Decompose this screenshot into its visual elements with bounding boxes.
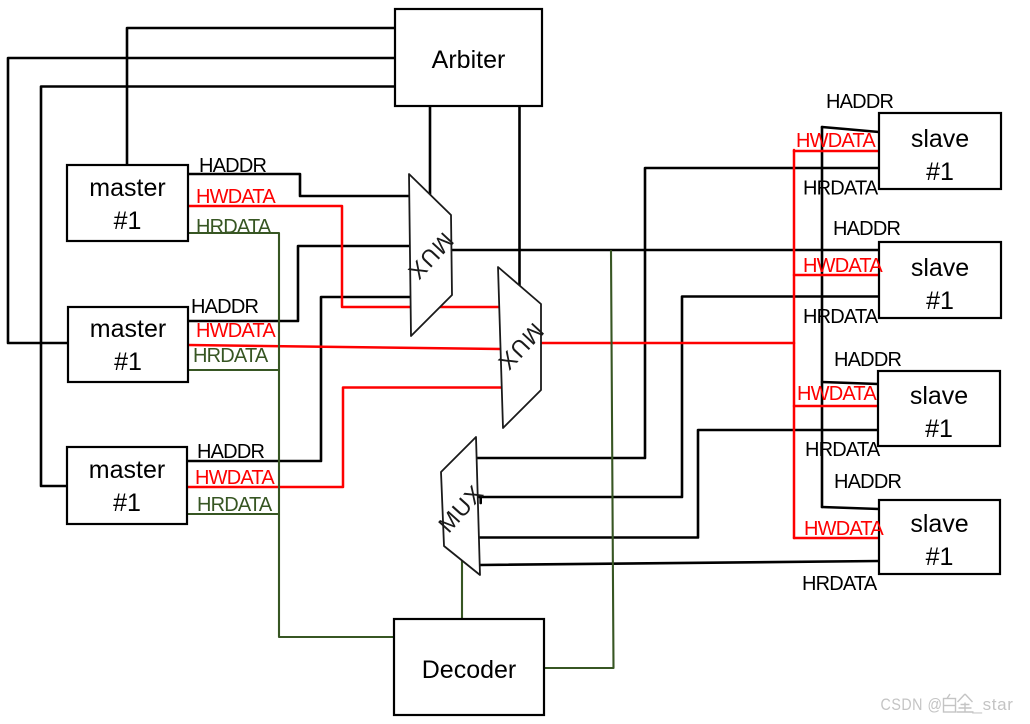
- svg-text:#1: #1: [925, 415, 953, 443]
- svg-text:HADDR: HADDR: [834, 471, 901, 493]
- wire: slave2 HRDATA to MUX3: [478, 297, 879, 498]
- svg-text:master: master: [89, 456, 165, 484]
- svg-text:HWDATA: HWDATA: [804, 518, 884, 540]
- svg-text:HWDATA: HWDATA: [196, 320, 276, 342]
- svg-text:slave: slave: [911, 125, 969, 153]
- svg-text:HWDATA: HWDATA: [196, 186, 276, 208]
- svg-text:slave: slave: [910, 382, 968, 410]
- wire: master3 HADDR to MUX1: [187, 297, 411, 461]
- block master 3: [67, 447, 187, 524]
- wire: HWDATA bus vertical: [793, 150, 796, 538]
- wire: slave4 HRDATA to MUX3: [480, 561, 880, 565]
- svg-text:HWDATA: HWDATA: [195, 467, 275, 489]
- wire: HWDATA bus from MUX2: [541, 342, 794, 345]
- wire: tick at MUX3 input2: [479, 497, 482, 503]
- wire: HWDATA branch to slave3: [794, 405, 878, 408]
- wire: master2 HRDATA: [188, 369, 279, 371]
- svg-text:#1: #1: [114, 207, 142, 235]
- svg-text:CSDN @: CSDN @: [881, 696, 943, 714]
- block slave 4: [879, 500, 1000, 574]
- svg-text:HWDATA: HWDATA: [796, 130, 876, 152]
- svg-text:#1: #1: [113, 489, 141, 517]
- svg-text:HADDR: HADDR: [191, 296, 258, 318]
- wire: master1 HADDR to MUX1: [188, 174, 410, 196]
- svg-text:HWDATA: HWDATA: [797, 383, 877, 405]
- wire: HWDATA branch to slave4: [794, 537, 879, 540]
- svg-text:HRDATA: HRDATA: [803, 306, 879, 328]
- wire: arbiter grant to master 3: [41, 87, 395, 487]
- block master 1: [67, 165, 188, 241]
- watermark glyph bai: [944, 694, 956, 712]
- svg-text:_star: _star: [971, 696, 1013, 714]
- wires group placeholder: [8, 28, 879, 668]
- svg-text:HRDATA: HRDATA: [193, 345, 269, 367]
- wire: master2 HADDR to MUX1: [188, 246, 410, 321]
- wire: HWDATA branch to slave2: [794, 274, 879, 277]
- wire: master2 HWDATA to MUX2: [188, 345, 501, 349]
- wire: HADDR branch to slave3: [822, 382, 878, 384]
- block slave 2: [879, 242, 1001, 318]
- svg-text:HWDATA: HWDATA: [803, 255, 883, 277]
- svg-text:HADDR: HADDR: [199, 155, 266, 177]
- svg-text:HRDATA: HRDATA: [196, 216, 272, 238]
- wire: decoder tap from HADDR bus: [544, 251, 614, 668]
- svg-text:slave: slave: [910, 510, 968, 538]
- svg-text:HADDR: HADDR: [834, 349, 901, 371]
- wire: masters HRDATA green vertical to Decoder: [188, 233, 394, 637]
- wire: slave1 HRDATA to MUX3: [477, 168, 879, 458]
- mux MUX3 read-data multiplexor: [433, 437, 489, 575]
- block master 2: [68, 307, 188, 382]
- wire: arbiter control to address MUX: [429, 106, 432, 194]
- svg-text:#1: #1: [114, 348, 142, 376]
- block Arbiter: [395, 9, 542, 106]
- mux MUX1 address multiplexor: [403, 174, 459, 336]
- wire: HADDR branch to slave1: [822, 127, 879, 132]
- wire: master1 HWDATA to MUX2: [188, 206, 499, 307]
- svg-text:HRDATA: HRDATA: [803, 178, 879, 200]
- block slave 1: [879, 113, 1001, 189]
- wire: arbiter control to write-data MUX: [518, 106, 521, 285]
- svg-text:HRDATA: HRDATA: [197, 494, 273, 516]
- mux MUX2 write-data multiplexor: [493, 267, 549, 428]
- svg-text:master: master: [89, 174, 165, 202]
- wire: master3 HWDATA to MUX2: [187, 388, 502, 488]
- svg-text:Decoder: Decoder: [422, 656, 517, 684]
- wire: HWDATA branch to slave1: [794, 150, 879, 153]
- wire: HADDR bus vertical: [821, 127, 824, 507]
- svg-text:HRDATA: HRDATA: [802, 573, 878, 595]
- svg-text:HADDR: HADDR: [833, 218, 900, 240]
- svg-text:#1: #1: [926, 287, 954, 315]
- wire: HADDR bus from MUX1 to slave2: [451, 249, 879, 252]
- svg-text:#1: #1: [926, 543, 954, 571]
- wire: arbiter grant to master 1: [127, 28, 395, 165]
- wire: master3 HRDATA: [187, 513, 279, 515]
- watermark placeholder: [881, 694, 1014, 714]
- svg-text:Arbiter: Arbiter: [432, 46, 506, 74]
- svg-text:HADDR: HADDR: [826, 91, 893, 113]
- svg-text:HRDATA: HRDATA: [805, 439, 881, 461]
- svg-text:slave: slave: [911, 254, 969, 282]
- svg-text:HADDR: HADDR: [197, 441, 264, 463]
- svg-text:#1: #1: [926, 158, 954, 186]
- block Decoder: [394, 619, 544, 715]
- svg-text:master: master: [90, 315, 166, 343]
- watermark glyph jin: [957, 694, 974, 712]
- block slave 3: [878, 371, 1000, 446]
- wire: HADDR branch to slave4: [822, 507, 879, 509]
- wire: slave3 HRDATA to MUX3: [479, 430, 878, 538]
- wire: decoder select to MUX3: [461, 561, 463, 620]
- wire: arbiter grant to master 2: [8, 58, 395, 343]
- labels group placeholder: [191, 91, 901, 595]
